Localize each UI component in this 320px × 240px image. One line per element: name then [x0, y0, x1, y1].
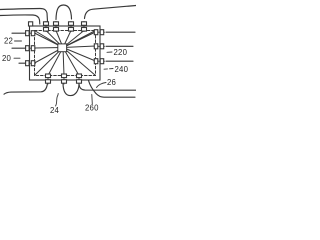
wire hump over top leads — [56, 5, 72, 20]
leader line for label 22 — [15, 40, 22, 42]
left lead 1 — [26, 31, 36, 36]
bottom lead 2 — [62, 74, 67, 84]
wire 26 second upper-left wire — [0, 15, 40, 24]
leader line for label 20 — [14, 57, 20, 59]
right lead 2 — [94, 44, 105, 49]
top lead 1 — [44, 22, 49, 32]
leader dash for label 220 — [107, 51, 112, 53]
wire from left lead 2 — [12, 47, 26, 49]
right lead 1 — [94, 30, 105, 35]
wire from right lead 1 — [106, 31, 135, 33]
svg-text:240: 240 — [115, 65, 129, 74]
wire arc under bottom leads — [63, 84, 79, 96]
leader line for label 26 — [97, 83, 107, 88]
wire from bottom lead 1 going left — [4, 83, 48, 94]
bottom lead 3 — [77, 74, 82, 84]
top lead 4 — [82, 22, 87, 32]
svg-text:24: 24 — [50, 106, 60, 115]
top corner stub lead — [29, 22, 33, 26]
wire from left lead 1 — [12, 32, 26, 34]
bond wire rays from die to leads and corners — [35, 31, 96, 76]
leader line for label 24 — [56, 94, 59, 107]
svg-text:26: 26 — [107, 78, 116, 87]
left lead 3 — [26, 61, 36, 66]
wire from left lead 3 — [19, 62, 26, 64]
wire from right lead 3 — [106, 60, 133, 62]
svg-text:20: 20 — [2, 54, 12, 63]
wire 24 upper-left entering wire — [0, 9, 48, 22]
package inner dashed outline — [35, 31, 96, 76]
wire from bottom arc to right edge — [79, 84, 136, 90]
svg-text:220: 220 — [114, 48, 128, 57]
package body outer outline — [30, 26, 101, 80]
top lead 3 — [69, 22, 74, 32]
wire to top-right exit — [85, 6, 137, 19]
left lead 2 — [26, 46, 36, 51]
right lead 3 — [94, 59, 105, 64]
die (semiconductor chip) — [58, 44, 67, 52]
svg-text:260: 260 — [85, 104, 99, 113]
svg-text:22: 22 — [4, 37, 13, 46]
leader dashes for label 240 — [104, 68, 113, 71]
top lead 2 — [54, 22, 59, 32]
bottom lead 1 — [46, 74, 51, 84]
wire from right lead 2 — [106, 45, 133, 47]
leader line for label 260 — [91, 95, 94, 105]
wire from bottom-right corner to right edge — [89, 81, 136, 98]
